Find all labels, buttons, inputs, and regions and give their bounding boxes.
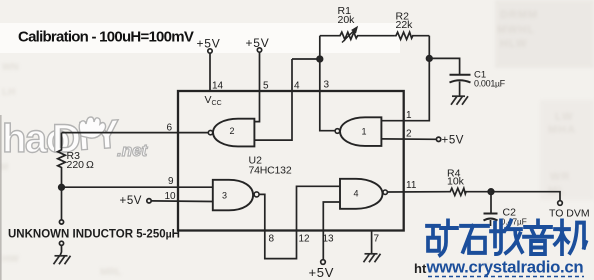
svg-text:+5V: +5V xyxy=(197,37,221,51)
resistor R4 10k xyxy=(449,188,488,195)
wire pin3 column xyxy=(320,36,335,131)
node A junction dot xyxy=(317,56,323,62)
svg-text:1: 1 xyxy=(362,127,367,137)
+5V terminal pin2 xyxy=(436,137,440,141)
svg-text:MHA: MHA xyxy=(548,124,576,136)
faint bleedthrough left margin xyxy=(0,62,494,278)
svg-text:MRL: MRL xyxy=(100,267,122,278)
svg-text:3: 3 xyxy=(222,191,227,201)
svg-text:3: 3 xyxy=(324,80,330,91)
capacitor C1 xyxy=(450,74,471,76)
svg-text:8: 8 xyxy=(269,234,275,245)
wire pin6 output to left rail xyxy=(62,132,209,134)
svg-text:UNKNOWN INDUCTOR 5-250µH: UNKNOWN INDUCTOR 5-250µH xyxy=(8,229,180,241)
nand gate U2c (gate 3) xyxy=(213,180,253,211)
svg-text:Calibration - 100uH=100mV: Calibration - 100uH=100mV xyxy=(18,29,194,46)
svg-text:14: 14 xyxy=(212,81,224,92)
watermark dashed underline xyxy=(428,276,584,278)
svg-text:1: 1 xyxy=(406,110,412,121)
ground pin7 xyxy=(364,254,381,262)
IC U2 box outline xyxy=(178,91,404,231)
svg-text:TO DVM: TO DVM xyxy=(549,208,590,220)
svg-text:WN: WN xyxy=(2,62,19,73)
svg-text:10: 10 xyxy=(165,191,177,202)
+5V terminal pin10 xyxy=(147,199,151,203)
svg-text:74HC132: 74HC132 xyxy=(249,165,292,177)
svg-text:0.47µF: 0.47µF xyxy=(501,217,527,227)
svg-text:10k: 10k xyxy=(447,176,465,188)
+5V terminal pin5 xyxy=(257,48,261,52)
wire rail to inductor terminal xyxy=(61,187,63,220)
svg-text:220Ω: 220Ω xyxy=(67,159,95,171)
wire terminal to ground xyxy=(60,245,62,255)
svg-text:5: 5 xyxy=(263,81,269,92)
TO DVM terminal xyxy=(558,201,563,206)
svg-text:+5V: +5V xyxy=(246,36,270,50)
svg-text:20k: 20k xyxy=(338,14,356,26)
faint scan mottling top right xyxy=(495,0,594,68)
svg-text:12: 12 xyxy=(299,234,311,245)
scan edge streak left xyxy=(0,115,2,280)
white band behind title xyxy=(0,23,400,53)
wire gate2 lower input to pin4 column xyxy=(254,59,292,140)
svg-text:+5V: +5V xyxy=(309,265,335,280)
+5V terminal pin14 xyxy=(208,49,212,53)
wire pin9 xyxy=(62,186,213,188)
svg-text:9: 9 xyxy=(168,176,174,187)
char ji xyxy=(555,221,586,254)
svg-text:22k: 22k xyxy=(396,19,414,31)
wire node D to DVM xyxy=(491,192,560,201)
svg-text:2: 2 xyxy=(406,129,412,140)
capacitor C2 xyxy=(484,213,498,215)
svg-text:+5V: +5V xyxy=(120,195,143,207)
wire pin7 stub xyxy=(371,231,373,254)
ground C1 xyxy=(451,96,468,105)
nand gate U2a (gate 1, mirrored) xyxy=(340,117,381,146)
wire gate3 output pin8 to pin12 jog xyxy=(259,186,340,258)
wire pin4 to node A xyxy=(292,58,320,60)
faint bleedthrough right column xyxy=(497,9,576,197)
svg-text:DRMM: DRMM xyxy=(500,9,538,21)
watermark crystalradio (blue) xyxy=(427,221,586,256)
char kuang xyxy=(427,221,457,256)
svg-text:7: 7 xyxy=(374,234,380,245)
wire pin13 column xyxy=(323,202,340,260)
svg-text:HW: HW xyxy=(2,254,19,265)
wire pin2 to +5V xyxy=(381,138,436,140)
wire pin5 column xyxy=(254,52,259,121)
svg-text:+5V: +5V xyxy=(442,135,465,147)
+5V terminal pin13 xyxy=(321,260,326,265)
inductor terminal top xyxy=(59,220,63,224)
gate number labels xyxy=(222,126,367,201)
resistor R1 (trimmer 20k) xyxy=(320,32,395,39)
wire node D to C2 xyxy=(490,195,492,213)
watermark haoDIY.net (gray outline logo) xyxy=(2,112,149,161)
node D junction dot xyxy=(488,189,494,195)
nand gate U2d (gate 4) xyxy=(340,179,383,209)
wire pin1 to node B xyxy=(381,58,429,120)
wire pin10 xyxy=(151,200,213,203)
svg-text:LH: LH xyxy=(2,87,15,98)
svg-text:11: 11 xyxy=(406,180,417,191)
wire R2 down to node B xyxy=(428,36,430,59)
pin number labels xyxy=(165,80,417,245)
resistor R3 220 ohm xyxy=(58,133,66,185)
svg-text:4: 4 xyxy=(354,189,359,199)
node B junction dot xyxy=(427,56,433,62)
wire pin14 to Vcc xyxy=(209,53,211,91)
svg-text:.net: .net xyxy=(117,141,149,160)
svg-text:4: 4 xyxy=(294,81,300,92)
svg-text:6: 6 xyxy=(167,123,173,134)
svg-text:WR: WR xyxy=(550,171,570,183)
char yin xyxy=(524,221,552,254)
wire node B to C1 xyxy=(429,58,459,74)
char shi xyxy=(461,226,488,253)
resistor R2 22k xyxy=(395,32,430,39)
svg-text:www.crystalradio.cn: www.crystalradio.cn xyxy=(426,258,584,277)
svg-text:2: 2 xyxy=(230,126,235,136)
svg-text:HLW: HLW xyxy=(500,38,527,50)
inductor terminal bottom xyxy=(59,241,63,245)
node C junction dot xyxy=(59,185,65,191)
svg-text:MWHL: MWHL xyxy=(497,24,535,36)
wire pin11 output xyxy=(387,191,449,193)
svg-text:ht: ht xyxy=(414,261,427,276)
svg-text:0.001µF: 0.001µF xyxy=(474,79,506,89)
ground inductor xyxy=(54,256,71,264)
svg-text:LW: LW xyxy=(555,111,574,123)
nand gate U2b (gate 2, mirrored) xyxy=(213,119,254,147)
svg-text:13: 13 xyxy=(323,234,335,245)
char shou xyxy=(491,221,522,254)
